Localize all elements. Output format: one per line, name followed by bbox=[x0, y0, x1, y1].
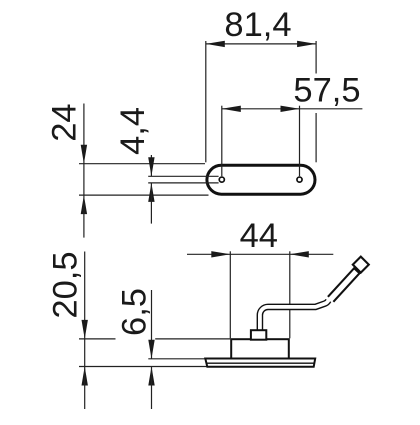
extension line plate top (6,5) bbox=[148, 358, 205, 360]
extension line body top (20,5) segment 2 bbox=[155, 338, 230, 340]
connector sleeve bbox=[328, 268, 360, 302]
dimension line 81,4 bbox=[206, 43, 316, 45]
dimension line 4,4 upper with arrow bbox=[150, 155, 152, 176]
dimension line 4,4 lower with arrow and tail bbox=[148, 183, 154, 202]
arrow 57,5 right bbox=[281, 106, 300, 112]
arrow 24 top bbox=[81, 145, 87, 164]
arrow 44 right (outside) bbox=[290, 251, 309, 257]
dimension line 20,5 with arrows bbox=[84, 252, 86, 367]
lamp body side view bbox=[231, 339, 289, 359]
svg-text:4,4: 4,4 bbox=[114, 107, 152, 155]
cable wire (white inner) bbox=[260, 299, 330, 341]
svg-text:57,5: 57,5 bbox=[293, 71, 360, 109]
extension line body right (44) bbox=[289, 251, 291, 338]
svg-text:44: 44 bbox=[240, 217, 278, 255]
arrow 81,4 right bbox=[297, 41, 316, 47]
cable wire (black outer) bbox=[260, 301, 329, 340]
dimension line 57,5 bbox=[222, 108, 363, 110]
arrow 81,4 left bbox=[206, 41, 225, 47]
mounting hole left bbox=[219, 177, 224, 182]
extension line pill top (24) bbox=[79, 163, 205, 165]
svg-text:6,5: 6,5 bbox=[116, 288, 154, 336]
extension line right hole center (57,5) bbox=[299, 106, 301, 177]
extension line pill left edge (81,4) bbox=[205, 41, 207, 162]
extension line left hole center (57,5) bbox=[221, 106, 223, 177]
extension line body top (20,5) segment 1 bbox=[79, 338, 116, 340]
lamp top view pill outline bbox=[207, 165, 315, 194]
extension line hole bottom tangent (4,4) bbox=[148, 182, 218, 184]
svg-text:24: 24 bbox=[45, 103, 83, 141]
extension line body left (44) bbox=[229, 251, 231, 338]
svg-text:81,4: 81,4 bbox=[224, 6, 291, 44]
base plate middle line bbox=[207, 362, 315, 364]
base plate side view bbox=[205, 359, 315, 367]
arrow 24 bottom with tail bbox=[81, 195, 87, 214]
extension line pill bottom (24) bbox=[79, 194, 209, 196]
svg-text:20,5: 20,5 bbox=[46, 251, 84, 318]
dimension line 24 bbox=[83, 104, 85, 196]
extension line plate bottom (20,5 and 6,5) bbox=[79, 366, 207, 368]
arrow 57,5 left bbox=[222, 106, 241, 112]
mounting hole right bbox=[297, 177, 302, 182]
arrow 44 left (outside) bbox=[211, 251, 230, 257]
dimension line 44 bbox=[187, 253, 333, 255]
extension line hole top tangent (4,4) bbox=[148, 175, 218, 177]
connector head bbox=[353, 257, 369, 273]
extension line pill right edge (81,4) bbox=[315, 41, 317, 74]
connector block on body bbox=[251, 330, 266, 340]
dimension line 6,5 with arrows bbox=[151, 290, 153, 359]
